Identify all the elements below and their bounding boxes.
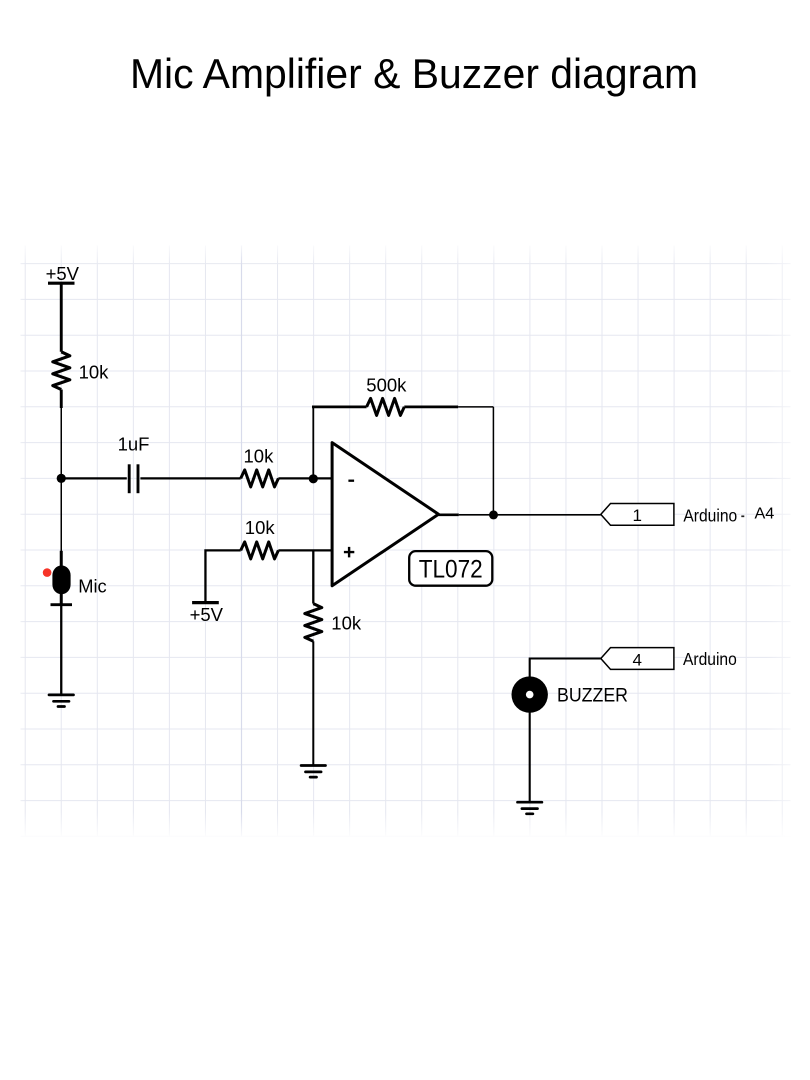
wire R2 to inverting input node B bbox=[278, 477, 332, 479]
svg-text:500k: 500k bbox=[366, 374, 407, 395]
wire R4 to +5V corner bbox=[205, 549, 240, 601]
resistor R3 500k (feedback) bbox=[366, 374, 407, 415]
capacitor C1 1uF bbox=[118, 433, 150, 493]
wire +5V to R1 bbox=[60, 284, 63, 352]
resistor R4 10k (bias +input) bbox=[241, 517, 279, 559]
+5V power symbol (top) bbox=[46, 263, 80, 284]
ground (R5) bbox=[301, 766, 325, 778]
svg-text:Mic: Mic bbox=[78, 576, 107, 597]
svg-text:10k: 10k bbox=[79, 362, 110, 383]
wire feedback down to output node C bbox=[492, 407, 494, 515]
pin flag 1 (Arduino A4) bbox=[601, 504, 674, 526]
wire +input node down to R5 bbox=[312, 550, 314, 603]
svg-text:Arduino: Arduino bbox=[683, 649, 737, 669]
svg-text:1uF: 1uF bbox=[118, 433, 150, 454]
resistor R1 10k (mic bias) bbox=[53, 352, 109, 408]
pin flag 4 (Arduino) bbox=[601, 648, 674, 670]
wire R5 to ground bbox=[312, 641, 314, 765]
resistor R5 10k (to ground) bbox=[305, 604, 362, 642]
svg-text:A4: A4 bbox=[755, 505, 775, 522]
svg-text:4: 4 bbox=[632, 650, 641, 669]
svg-text:1: 1 bbox=[632, 506, 641, 525]
svg-text:Arduino: Arduino bbox=[683, 505, 737, 525]
svg-text:Mic Amplifier & Buzzer diagram: Mic Amplifier & Buzzer diagram bbox=[130, 50, 698, 97]
wire C1 to R2 bbox=[140, 477, 240, 479]
wire buzzer to ground bbox=[529, 713, 531, 802]
wire node A to C1 bbox=[63, 477, 127, 479]
microphone Mic bbox=[43, 551, 107, 605]
ground (buzzer) bbox=[518, 802, 542, 814]
resistor R2 10k (input) bbox=[241, 445, 279, 487]
op-amp U1 TL072 bbox=[332, 443, 438, 586]
svg-text:BUZZER: BUZZER bbox=[557, 684, 628, 706]
node A junction dot bbox=[57, 474, 66, 483]
wire op-amp output stub bbox=[439, 513, 459, 516]
wire +input to R4 bbox=[278, 549, 332, 551]
ground (mic) bbox=[49, 695, 74, 707]
wire output to pin flag bbox=[459, 514, 601, 516]
buzzer BZ1 bbox=[512, 676, 629, 712]
wire node A to mic bbox=[60, 478, 62, 551]
svg-text:TL072: TL072 bbox=[419, 555, 483, 583]
svg-text:+5V: +5V bbox=[46, 263, 80, 284]
svg-text:10k: 10k bbox=[245, 517, 276, 538]
wire feedback left segment bbox=[312, 406, 367, 409]
wire feedback right segment bbox=[404, 406, 458, 409]
label Arduino A4 bbox=[683, 505, 774, 525]
wire buzzer up and right to pin flag bbox=[529, 659, 601, 695]
svg-text:+5V: +5V bbox=[190, 604, 224, 625]
wire R1 to node A bbox=[60, 408, 62, 478]
TL072 value label box bbox=[409, 551, 492, 586]
wire node B up to feedback row bbox=[312, 407, 314, 479]
node C junction dot bbox=[489, 510, 498, 519]
wire mic to ground bbox=[60, 605, 62, 695]
svg-text:10k: 10k bbox=[244, 445, 275, 466]
+5V power symbol (second) bbox=[190, 603, 224, 625]
svg-text:10k: 10k bbox=[331, 612, 362, 633]
node B junction dot bbox=[309, 474, 318, 483]
